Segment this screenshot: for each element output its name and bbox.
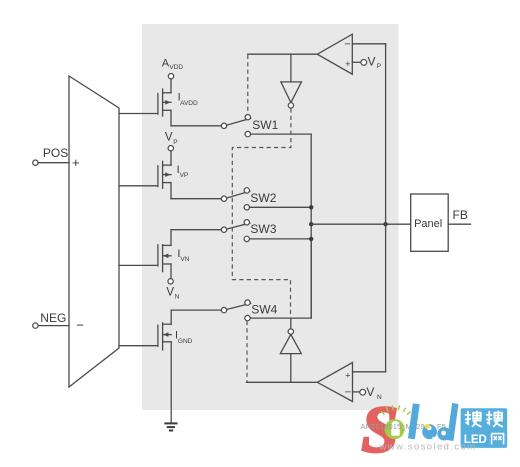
watermark logo highlight dot bbox=[425, 424, 430, 429]
wire A2 inverting to V_N bbox=[353, 391, 360, 393]
Panel block bbox=[411, 194, 449, 251]
watermark logo led bbox=[411, 404, 455, 442]
terminal V_P (output) bbox=[361, 55, 381, 71]
transistor Q4 I_GND bbox=[158, 310, 193, 350]
wire bottom rail bbox=[247, 381, 318, 383]
wire FB output bbox=[448, 208, 470, 224]
op-amp A1 bbox=[317, 34, 352, 74]
wire SW4 to node bus bbox=[250, 240, 311, 318]
svg-text:POS: POS bbox=[43, 146, 68, 160]
svg-text:V: V bbox=[165, 132, 173, 144]
NEG input terminal bbox=[33, 311, 69, 328]
junction SW2 bbox=[309, 205, 313, 209]
wire gate drive 2 bbox=[119, 185, 158, 187]
junction SW3 bbox=[309, 237, 313, 241]
svg-text:−: − bbox=[344, 39, 350, 51]
wire gate drive 3 bbox=[119, 264, 158, 266]
wire Q3 drain to SW3 bbox=[171, 229, 221, 231]
svg-text:AVDD: AVDD bbox=[180, 100, 198, 107]
wire Q1 source to SW1 bbox=[171, 125, 221, 127]
watermark logo box bbox=[461, 408, 508, 448]
svg-text:SW1: SW1 bbox=[252, 118, 278, 132]
svg-text:FB: FB bbox=[453, 208, 468, 222]
wire A2 noninverting input bbox=[353, 371, 386, 373]
junction bus bbox=[309, 222, 313, 226]
switch SW4 bbox=[221, 300, 277, 321]
svg-text:www.sosoled.com: www.sosoled.com bbox=[379, 442, 477, 453]
svg-text:Panel: Panel bbox=[414, 218, 442, 230]
transistor Q2 I_VP bbox=[158, 151, 188, 199]
svg-text:+: + bbox=[72, 155, 80, 170]
watermark logo rays bbox=[381, 405, 410, 415]
terminal V_N (supply) bbox=[166, 279, 179, 301]
svg-text:SW2: SW2 bbox=[250, 191, 276, 205]
wire SW1 to node bus bbox=[251, 133, 312, 135]
svg-text:N: N bbox=[175, 294, 180, 301]
svg-text:GND: GND bbox=[178, 338, 193, 345]
node bus vertical bbox=[310, 134, 312, 318]
dashed control SW1 bbox=[247, 55, 249, 115]
terminal V_P (supply) bbox=[165, 132, 178, 151]
wire bus to panel bbox=[311, 223, 410, 225]
wire SW3 to node bus bbox=[250, 238, 312, 240]
wire A1 inverting input bbox=[352, 44, 385, 46]
switch SW2 bbox=[221, 188, 276, 210]
watermark logo sou glyph 1 bbox=[465, 411, 482, 427]
inverter U2 bbox=[281, 54, 302, 108]
wire Q4 drain to SW4 bbox=[171, 309, 221, 311]
svg-text:NEG: NEG bbox=[40, 311, 66, 325]
svg-text:P: P bbox=[377, 63, 381, 70]
wire SW2 to node bus bbox=[250, 206, 312, 208]
error amplifier U1 (trapezoid) bbox=[69, 76, 119, 387]
svg-text:SW4: SW4 bbox=[251, 303, 277, 317]
svg-text:SW3: SW3 bbox=[250, 222, 276, 236]
ground bbox=[164, 423, 177, 430]
svg-text:+: + bbox=[345, 371, 350, 381]
inverter U3 bbox=[280, 318, 301, 382]
watermark logo sou glyph 2 bbox=[486, 411, 503, 427]
POS input terminal bbox=[33, 146, 69, 165]
op-amp A2 bbox=[317, 363, 352, 402]
wire Q2 source to SW2 bbox=[171, 198, 221, 200]
svg-text:VN: VN bbox=[180, 256, 189, 263]
svg-text:−: − bbox=[76, 317, 84, 332]
svg-text:V: V bbox=[368, 55, 376, 69]
wire A1 noninverting to V_P bbox=[352, 61, 361, 63]
watermark logo o bbox=[385, 419, 405, 439]
junction feedback bbox=[383, 222, 387, 226]
svg-text:P: P bbox=[173, 139, 177, 146]
switch SW1 bbox=[221, 115, 278, 137]
IC body shading bbox=[142, 24, 399, 410]
switch SW3 bbox=[221, 220, 276, 242]
svg-text:VDD: VDD bbox=[169, 64, 183, 71]
svg-text:−: − bbox=[345, 387, 351, 399]
terminal A_VDD bbox=[162, 57, 184, 79]
transistor Q3 I_VN bbox=[158, 230, 190, 279]
wire feedback vertical bbox=[385, 44, 387, 372]
wire Q4 source to ground bbox=[170, 342, 172, 424]
svg-text:VP: VP bbox=[180, 172, 189, 179]
wire gate drive 4 bbox=[119, 345, 158, 347]
svg-text:V: V bbox=[166, 287, 174, 299]
wire gate drive 1 bbox=[119, 113, 158, 115]
dashed control path U2 to SW4 bbox=[232, 108, 291, 316]
transistor Q1 I_AVDD bbox=[158, 79, 198, 126]
svg-text:+: + bbox=[345, 59, 350, 69]
terminal V_N (output) bbox=[360, 385, 382, 401]
watermark logo wang glyph bbox=[492, 434, 504, 445]
wire top rail bbox=[248, 53, 317, 55]
dashed control SW4 bbox=[246, 321, 248, 382]
